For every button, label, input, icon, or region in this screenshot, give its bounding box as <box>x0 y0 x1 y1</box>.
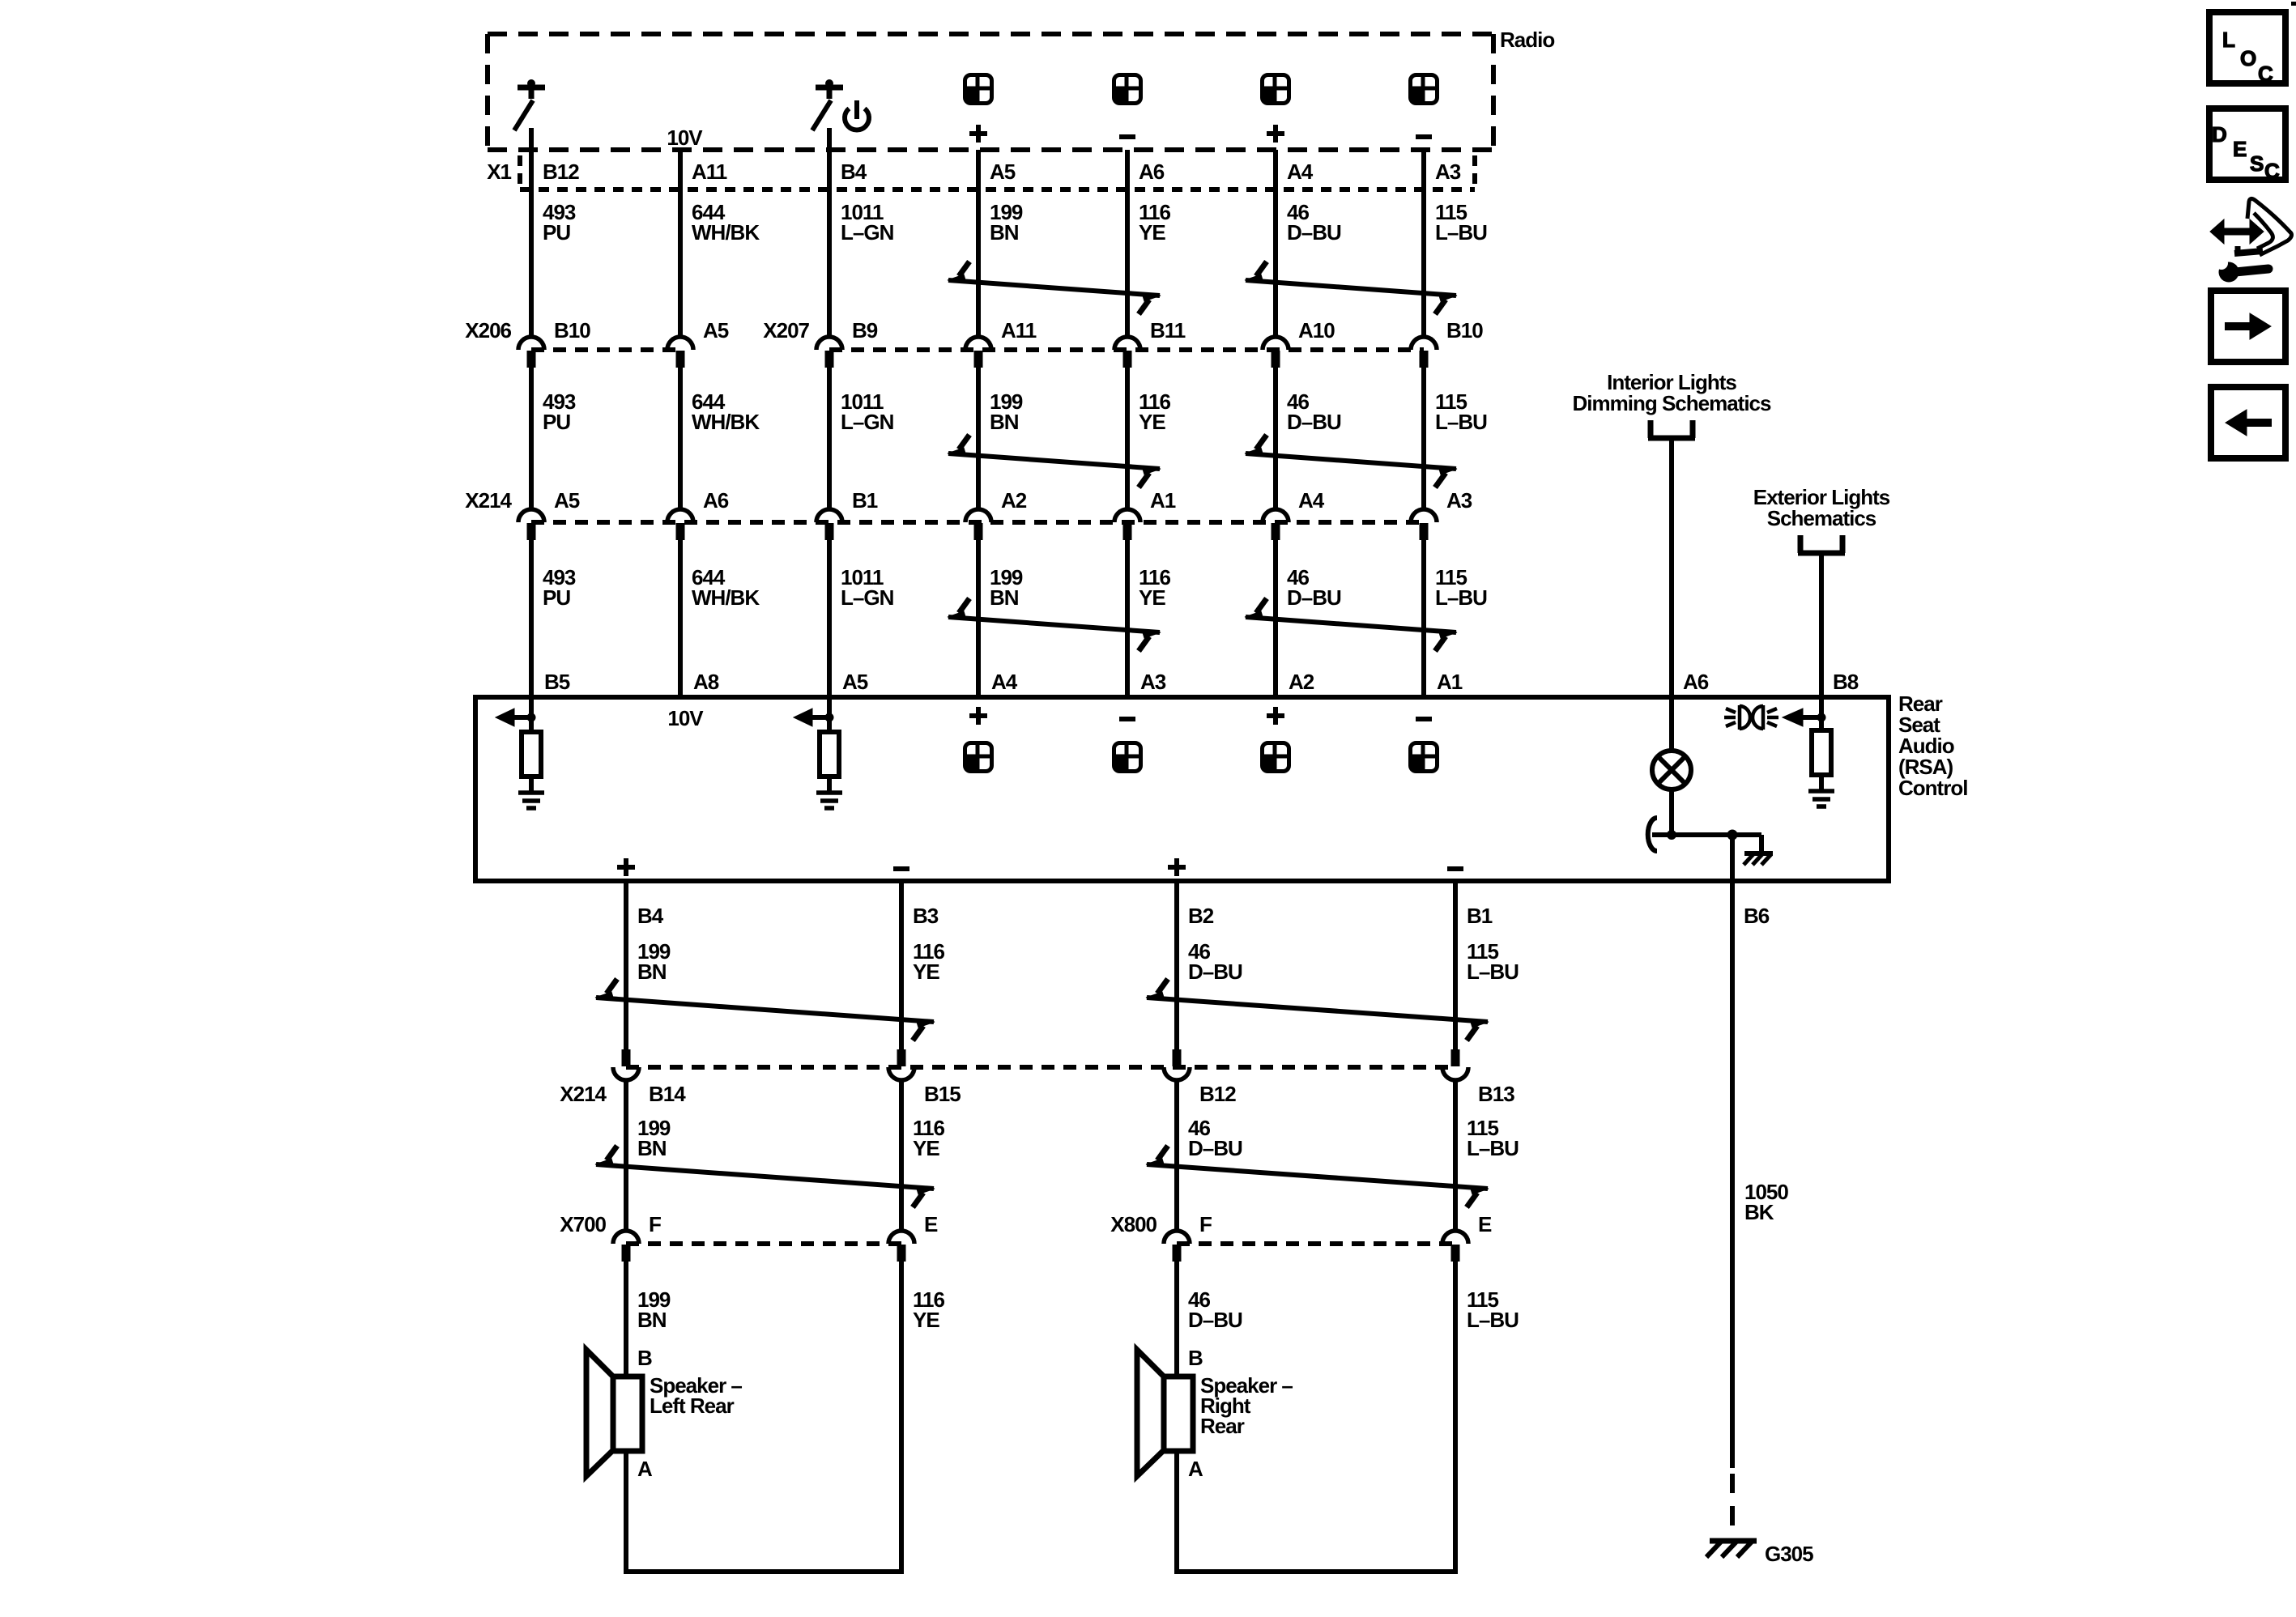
twisted pair mark BN/YE (y560) <box>948 435 1161 487</box>
svg-text:Schematics: Schematics <box>1767 506 1876 530</box>
polarity + RSA bottom x1453 <box>1168 858 1186 876</box>
speaker - left rear symbol <box>586 1350 642 1476</box>
Rear Seat Audio control box <box>475 697 1889 881</box>
junction dot B6 <box>1727 830 1738 840</box>
connector pin B13 (X214 lower) <box>1442 1049 1514 1106</box>
wire label 644 WH/BK (y505) <box>692 389 760 434</box>
svg-text:B2: B2 <box>1188 904 1214 928</box>
svg-text:G305: G305 <box>1765 1542 1813 1566</box>
label X700 <box>560 1212 606 1236</box>
svg-text:YE: YE <box>1139 410 1165 434</box>
svg-text:D–BU: D–BU <box>1287 585 1341 610</box>
power icon <box>845 100 869 130</box>
polarity + RSA x1575 <box>1267 707 1284 725</box>
svg-text:PU: PU <box>543 585 570 610</box>
pin A5 (RSA top) <box>842 670 868 694</box>
svg-text:A2: A2 <box>1001 488 1027 513</box>
svg-text:A8: A8 <box>693 670 719 694</box>
wire label 493 PU (y505) <box>543 389 576 434</box>
connector pin B11 (X206/X207 row) <box>1114 318 1186 368</box>
svg-text:O: O <box>2240 46 2256 70</box>
polarity + RSA x1208 <box>969 707 987 725</box>
svg-text:A: A <box>1188 1457 1203 1481</box>
label X214 (lower) <box>560 1082 607 1106</box>
polarity + (A5) <box>969 125 987 143</box>
svg-text:D–BU: D–BU <box>1287 220 1341 245</box>
chassis ground (internal) <box>1744 853 1773 865</box>
label X207 <box>763 318 809 343</box>
twisted pair mark D-BU/L-BU (y762) <box>1245 598 1457 651</box>
ground B8 <box>1808 791 1834 806</box>
svg-text:L–BU: L–BU <box>1435 220 1487 245</box>
speaker icon A5 <box>965 75 992 104</box>
svg-text:10V: 10V <box>667 126 703 150</box>
svg-text:WH/BK: WH/BK <box>692 220 760 245</box>
pin B2 (RSA bottom) <box>1188 904 1214 928</box>
connector pin F (X800) <box>1164 1212 1212 1262</box>
wire 644 column 2 <box>678 150 683 697</box>
svg-text:D–BU: D–BU <box>1188 1308 1242 1332</box>
wire label 493 PU (y271) <box>543 200 576 245</box>
pin A6 (X1) <box>1139 160 1165 184</box>
wire 199 column 4 <box>976 150 981 697</box>
pin A (left speaker) <box>637 1457 653 1481</box>
wire label 116 YE (row3) <box>913 1287 944 1332</box>
svg-text:L–BU: L–BU <box>1435 585 1487 610</box>
polarity + (A4) <box>1267 125 1284 143</box>
ground G305 symbol <box>1706 1541 1757 1557</box>
label X800 <box>1110 1212 1157 1236</box>
wire stub x1024 <box>827 697 832 732</box>
icon diagnostic (arrows and wrench) <box>2210 198 2292 282</box>
svg-text:B1: B1 <box>852 488 878 513</box>
svg-text:A1: A1 <box>1150 488 1176 513</box>
svg-text:WH/BK: WH/BK <box>692 585 760 610</box>
wire label 115 L–BU (y271) <box>1435 200 1487 245</box>
dimming lamp icon <box>1724 705 1778 730</box>
connector X214 upper dashed line <box>531 520 1424 525</box>
pin B4 (RSA bottom) <box>637 904 664 928</box>
svg-text:BN: BN <box>637 1308 667 1332</box>
wire label 115 L–BU (row1) <box>1467 939 1519 984</box>
wire label 46 D–BU (y505) <box>1287 389 1341 434</box>
pin A5 (X1) <box>990 160 1016 184</box>
connector pin B1 (X214 upper) <box>816 488 878 540</box>
connector pin B14 (X214 lower) <box>613 1049 686 1106</box>
wire label 493 PU (y722) <box>543 565 576 610</box>
svg-text:A3: A3 <box>1446 488 1472 513</box>
twisted pair mark BN/YE (y346) <box>948 262 1161 314</box>
pin A8 (RSA top) <box>693 670 719 694</box>
speaker icon RSA x1208 <box>965 743 992 772</box>
svg-text:YE: YE <box>913 1308 939 1332</box>
svg-text:B: B <box>637 1346 652 1370</box>
switch symbol with power (radio output B4) <box>812 79 843 130</box>
connector X214 lower dashed line <box>626 1065 1455 1070</box>
wire 199 lower column <box>624 881 628 1231</box>
resistor ground lead B8 <box>1819 775 1824 789</box>
wire label 1011 L–GN (y722) <box>841 565 894 610</box>
speaker icon A3 <box>1411 75 1438 104</box>
label Radio <box>1500 28 1554 52</box>
svg-text:PU: PU <box>543 220 570 245</box>
svg-text:X1: X1 <box>487 160 511 184</box>
pin B (left speaker) <box>637 1346 652 1370</box>
svg-text:Radio: Radio <box>1500 28 1554 52</box>
connector pin B10 (X206/X207 row) <box>518 318 590 368</box>
ground x1024 <box>816 793 842 808</box>
connector pin F (X700) <box>613 1212 661 1262</box>
svg-text:BN: BN <box>990 220 1019 245</box>
right speaker return wire <box>1174 1451 1458 1572</box>
label X206 <box>465 318 511 343</box>
wire B6 inside box <box>1730 835 1735 881</box>
label Interior Lights Dimming Schematics <box>1573 370 1772 415</box>
svg-text:Control: Control <box>1898 776 1967 800</box>
wire label 46 D–BU (row1) <box>1188 939 1242 984</box>
connector pin A3 (X214 upper) <box>1411 488 1472 540</box>
connector pin A1 (X214 upper) <box>1114 488 1176 540</box>
wire label 115 L–BU (row3) <box>1467 1287 1519 1332</box>
polarity - (A6) <box>1119 134 1135 139</box>
label X214 (upper) <box>465 488 512 513</box>
speaker icon RSA x1758 <box>1411 743 1438 772</box>
svg-text:A4: A4 <box>1298 488 1325 513</box>
wire label 116 YE (y271) <box>1139 200 1170 245</box>
icon next-page box <box>2211 291 2285 362</box>
label Rear Seat Audio (RSA) Control <box>1898 691 1967 800</box>
svg-text:A6: A6 <box>1139 160 1165 184</box>
pin A11 (X1) <box>692 160 727 184</box>
svg-text:A5: A5 <box>703 318 729 343</box>
wire label 1011 L–GN (y271) <box>841 200 894 245</box>
svg-text:F: F <box>649 1212 661 1236</box>
speaker icon A4 <box>1263 75 1289 104</box>
svg-text:WH/BK: WH/BK <box>692 410 760 434</box>
svg-text:B6: B6 <box>1744 904 1770 928</box>
wire label 116 YE (row2) <box>913 1116 944 1160</box>
wire 115 column 7 <box>1421 150 1426 697</box>
pin A2 (RSA top) <box>1289 670 1314 694</box>
lamp (illumination) <box>1652 751 1691 789</box>
connector pin A10 (X206/X207 row) <box>1263 318 1335 368</box>
svg-text:A3: A3 <box>1140 670 1166 694</box>
svg-text:L–GN: L–GN <box>841 585 894 610</box>
stub to chassis ground <box>1732 835 1761 853</box>
svg-text:A4: A4 <box>1287 160 1314 184</box>
wire label 644 WH/BK (y271) <box>692 200 760 245</box>
svg-text:L–GN: L–GN <box>841 220 894 245</box>
wire label 115 L–BU (y722) <box>1435 565 1487 610</box>
pin B3 (RSA bottom) <box>913 904 939 928</box>
svg-text:A11: A11 <box>1001 318 1037 343</box>
speaker - right rear symbol <box>1137 1350 1193 1476</box>
svg-text:B: B <box>1188 1346 1203 1370</box>
wire 116 lower column <box>899 881 904 1231</box>
connector pin E (X800) <box>1442 1212 1492 1262</box>
svg-text:X214: X214 <box>560 1082 607 1106</box>
svg-text:S: S <box>2250 151 2264 176</box>
connector pin B12 (X214 lower) <box>1164 1049 1236 1106</box>
svg-text:A4: A4 <box>991 670 1018 694</box>
wire label 46 D–BU (row3) <box>1188 1287 1242 1332</box>
connector X1 right stub <box>1472 155 1477 189</box>
svg-text:A5: A5 <box>554 488 580 513</box>
speaker icon RSA x1392 <box>1114 743 1141 772</box>
connector X800 dashed line <box>1177 1241 1455 1246</box>
svg-text:B14: B14 <box>649 1082 686 1106</box>
left speaker return wire <box>624 1451 904 1572</box>
wire label 199 BN (y722) <box>990 565 1023 610</box>
pin A6 (RSA top) <box>1683 670 1709 694</box>
svg-text:A6: A6 <box>1683 670 1709 694</box>
svg-text:X800: X800 <box>1110 1212 1157 1236</box>
svg-text:YE: YE <box>1139 585 1165 610</box>
svg-text:D–BU: D–BU <box>1188 960 1242 984</box>
wire label 199 BN (y505) <box>990 389 1023 434</box>
svg-text:YE: YE <box>913 1136 939 1160</box>
wire label 199 BN (y271) <box>990 200 1023 245</box>
off-page bracket (exterior lights) <box>1798 535 1845 553</box>
wire 199 BN to speaker left <box>624 1262 628 1377</box>
svg-text:B1: B1 <box>1467 904 1493 928</box>
wire B8 into box <box>1819 697 1824 730</box>
resistor x1024 <box>820 732 839 777</box>
svg-text:C: C <box>2264 159 2280 183</box>
junction dot A6 <box>1667 830 1676 840</box>
twisted pair mark bottom row1 right <box>1146 979 1489 1040</box>
twisted pair mark bottom row1 left <box>595 979 935 1040</box>
polarity - RSA bottom x1113 <box>893 866 909 871</box>
polarity - RSA x1392 <box>1119 717 1135 721</box>
svg-text:L–BU: L–BU <box>1467 1136 1519 1160</box>
connector pin A5 (X206/X207 row) <box>667 318 729 368</box>
wire label 116 YE (y722) <box>1139 565 1170 610</box>
wire 1011 column 3 <box>827 128 832 697</box>
pin B1 (RSA bottom) <box>1467 904 1493 928</box>
connector pin E (X700) <box>888 1212 938 1262</box>
svg-text:A2: A2 <box>1289 670 1314 694</box>
polarity - RSA x1758 <box>1416 717 1432 721</box>
svg-text:X214: X214 <box>465 488 512 513</box>
label Exterior Lights Schematics <box>1753 485 1890 530</box>
connector pin A4 (X214 upper) <box>1263 488 1325 540</box>
svg-text:D–BU: D–BU <box>1287 410 1341 434</box>
wire A6 into box <box>1669 697 1674 751</box>
wire label 116 YE (row1) <box>913 939 944 984</box>
pin B (right speaker) <box>1188 1346 1203 1370</box>
ground x656 <box>518 793 544 808</box>
svg-text:Left Rear: Left Rear <box>650 1394 735 1418</box>
svg-text:A11: A11 <box>692 160 727 184</box>
svg-text:E: E <box>2233 137 2247 161</box>
polarity + RSA bottom x773 <box>617 858 635 876</box>
svg-text:B12: B12 <box>1199 1082 1236 1106</box>
wire 1050 BK <box>1730 881 1735 1539</box>
connector pin B15 (X214 lower) <box>888 1049 961 1106</box>
svg-text:YE: YE <box>1139 220 1165 245</box>
svg-text:X207: X207 <box>763 318 809 343</box>
svg-text:B11: B11 <box>1150 318 1186 343</box>
svg-text:B10: B10 <box>1446 318 1483 343</box>
wire label 116 YE (y505) <box>1139 389 1170 434</box>
svg-text:L–GN: L–GN <box>841 410 894 434</box>
svg-text:BN: BN <box>990 410 1019 434</box>
output arrow at x656 <box>496 709 536 726</box>
wire 46 column 6 <box>1273 150 1278 697</box>
twisted pair mark bottom row2 right <box>1146 1146 1489 1207</box>
twisted pair mark BN/YE (y762) <box>948 598 1161 651</box>
connector pin B10 (X206/X207 row) <box>1411 318 1483 368</box>
svg-text:C: C <box>2258 62 2273 86</box>
svg-text:B5: B5 <box>544 670 570 694</box>
resistor ground lead x1024 <box>827 777 832 791</box>
wire 46 lower column <box>1174 881 1179 1231</box>
resistor B8 <box>1812 730 1831 775</box>
svg-text:F: F <box>1199 1212 1212 1236</box>
svg-text:BK: BK <box>1744 1200 1774 1224</box>
wire stub x656 <box>529 697 534 732</box>
svg-text:B10: B10 <box>554 318 590 343</box>
connector X1 dotted line <box>520 187 1475 192</box>
svg-text:B9: B9 <box>852 318 878 343</box>
label Speaker - Left Rear <box>650 1373 742 1418</box>
wire 116 column 5 <box>1125 150 1130 697</box>
svg-text:YE: YE <box>913 960 939 984</box>
wire label 115 L–BU (row2) <box>1467 1116 1519 1160</box>
twisted pair mark D-BU/L-BU (y346) <box>1245 262 1457 314</box>
wire label 46 D–BU (y722) <box>1287 565 1341 610</box>
dimming arrow <box>1783 709 1826 726</box>
connector X700 dashed line <box>626 1241 901 1246</box>
pin A (right speaker) <box>1188 1457 1203 1481</box>
label 10V (radio) <box>667 126 703 150</box>
wire 46 D-BU to speaker right <box>1174 1262 1179 1377</box>
wire A6 lead <box>1669 440 1674 697</box>
wire label 46 D–BU (row2) <box>1188 1116 1242 1160</box>
svg-text:BN: BN <box>637 1136 667 1160</box>
svg-text:A1: A1 <box>1437 670 1463 694</box>
svg-text:X206: X206 <box>465 318 511 343</box>
connector X1 left stub <box>518 155 522 189</box>
svg-text:10V: 10V <box>667 706 704 730</box>
twisted pair mark D-BU/L-BU (y560) <box>1245 435 1457 487</box>
wire label 644 WH/BK (y722) <box>692 565 760 610</box>
svg-text:BN: BN <box>637 960 667 984</box>
svg-text:A5: A5 <box>842 670 868 694</box>
wire lamp to junction <box>1669 789 1674 835</box>
connector pin A5 (X214 upper) <box>518 488 580 540</box>
svg-text:E: E <box>1478 1212 1492 1236</box>
wire label 199 BN (row2) <box>637 1116 671 1160</box>
svg-text:B15: B15 <box>924 1082 961 1106</box>
wire 493 column 1 <box>529 128 534 697</box>
svg-text:A: A <box>637 1457 653 1481</box>
pin B4 (X1) <box>841 160 867 184</box>
svg-text:BN: BN <box>990 585 1019 610</box>
pin B8 (RSA top) <box>1833 670 1859 694</box>
pin A1 (RSA top) <box>1437 670 1463 694</box>
label Speaker - Right Rear <box>1200 1373 1293 1438</box>
svg-text:A6: A6 <box>703 488 729 513</box>
polarity - (A3) <box>1416 134 1432 139</box>
label G305 <box>1765 1542 1813 1566</box>
svg-text:L–BU: L–BU <box>1435 410 1487 434</box>
junction wire A6-B6 <box>1672 832 1732 837</box>
icon prev-page box <box>2211 387 2285 458</box>
svg-text:B3: B3 <box>913 904 939 928</box>
resistor ground lead x656 <box>529 777 534 791</box>
radio module dashed box <box>488 34 1493 150</box>
wire label 199 BN (row1) <box>637 939 671 984</box>
svg-text:E: E <box>924 1212 938 1236</box>
svg-text:B12: B12 <box>543 160 579 184</box>
resistor x656 <box>522 732 541 777</box>
svg-text:Dimming Schematics: Dimming Schematics <box>1573 391 1772 415</box>
pin B6 (RSA bottom) <box>1744 904 1770 928</box>
connector X207 dashed line <box>829 347 1424 352</box>
connector pin B9 (X206/X207 row) <box>816 318 878 368</box>
svg-text:L: L <box>2222 28 2235 52</box>
wire label 1050 BK <box>1744 1180 1788 1224</box>
svg-text:D: D <box>2212 122 2226 147</box>
page corner mark <box>2291 2 2296 6</box>
svg-text:D–BU: D–BU <box>1188 1136 1242 1160</box>
speaker icon A6 <box>1114 75 1141 104</box>
wire 116 YE to loop <box>899 1262 904 1572</box>
pin A4 (X1) <box>1287 160 1314 184</box>
icon LOC box <box>2209 12 2285 86</box>
twisted pair mark bottom row2 left <box>595 1146 935 1207</box>
connector pin A11 (X206/X207 row) <box>965 318 1037 368</box>
wire label 199 BN (row3) <box>637 1287 671 1332</box>
svg-text:L–BU: L–BU <box>1467 1308 1519 1332</box>
connector pin A2 (X214 upper) <box>965 488 1027 540</box>
svg-text:B4: B4 <box>637 904 664 928</box>
svg-text:Rear: Rear <box>1200 1414 1245 1438</box>
svg-text:B13: B13 <box>1478 1082 1514 1106</box>
pin B5 (RSA top) <box>544 670 570 694</box>
wire 115 L-BU to loop <box>1453 1262 1458 1572</box>
wire label 115 L–BU (y505) <box>1435 389 1487 434</box>
icon DESC box <box>2209 109 2285 183</box>
pin B12 (X1) <box>543 160 579 184</box>
svg-text:B4: B4 <box>841 160 867 184</box>
wire 115 lower column <box>1453 881 1458 1231</box>
label X1 <box>487 160 511 184</box>
connector X206 dashed line <box>531 347 680 352</box>
svg-text:X700: X700 <box>560 1212 606 1236</box>
splice hook arc <box>1648 818 1672 851</box>
svg-text:A5: A5 <box>990 160 1016 184</box>
svg-text:A3: A3 <box>1435 160 1461 184</box>
polarity - RSA bottom x1797 <box>1447 866 1463 871</box>
pin A3 (X1) <box>1435 160 1461 184</box>
speaker icon RSA x1575 <box>1263 743 1289 772</box>
svg-text:L–BU: L–BU <box>1467 960 1519 984</box>
pin A3 (RSA top) <box>1140 670 1166 694</box>
svg-text:B8: B8 <box>1833 670 1859 694</box>
wire B8 lead <box>1819 555 1824 697</box>
label 10V (RSA) <box>667 706 704 730</box>
svg-text:A10: A10 <box>1298 318 1335 343</box>
off-page bracket (interior lights) <box>1648 420 1695 438</box>
wire label 1011 L–GN (y505) <box>841 389 894 434</box>
switch symbol (radio output B12) <box>514 79 545 130</box>
output arrow at x1024 <box>794 709 834 726</box>
wire label 46 D–BU (y271) <box>1287 200 1341 245</box>
svg-text:PU: PU <box>543 410 570 434</box>
